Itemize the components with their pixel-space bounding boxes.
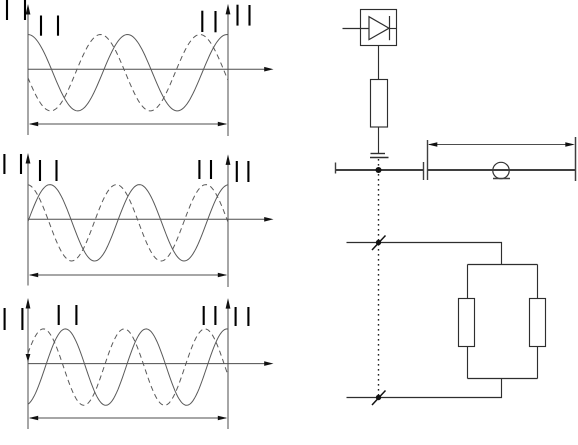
plot 2 label bar 2 [20,154,22,174]
resistor R2 [459,299,475,347]
plot 3 label bar 2 [21,308,23,330]
plot 3 label bar 1 [4,308,6,330]
twist slash on top feeder [372,236,386,251]
plot 3 label bar 6 [214,306,216,325]
wire box to resistor [378,46,380,80]
feeder top wire [347,243,502,265]
series gap right bar / extension line [427,140,429,180]
plot 2 label bar 7 [236,161,238,182]
plot 2 label bar 8 [247,161,249,182]
plot 3 label bar 8 [247,307,249,326]
plot 1 y-axis [26,4,31,135]
plot 2 solid waveform [28,185,228,261]
plot 1 right boundary axis [226,4,231,136]
plot 3 axis down-arrow at origin [26,354,31,362]
lecher line right rail [428,169,576,171]
plot 1 label bar 8 [248,5,250,26]
lecher line right end plate [575,137,577,181]
plot 3 label bar 3 [58,305,60,325]
twist mark dot on bottom feeder [376,395,381,400]
plot 1 wavelength dimension line [29,122,228,127]
capacitor C1 top plate [371,153,386,155]
diode D1 cathode bar [389,16,391,40]
plot 1 solid waveform [28,35,228,111]
plot 2 label bar 3 [39,160,41,181]
dotted probe line [378,159,380,396]
feeder bottom wire [347,379,502,398]
plot 1 label bar 4 [57,16,59,36]
plot 2 label bar 5 [198,160,200,179]
plot 2 x-axis (t) [28,217,274,222]
left branch upper wire [467,265,469,299]
plot 1 dashed waveform [28,35,228,111]
wire resistor to capacitor [378,127,380,154]
plot 2 wavelength dimension line [29,273,228,278]
plot 3 label bar 5 [203,306,205,325]
left branch lower wire [467,347,469,379]
plot 2 label bar 4 [55,160,57,181]
series gap left bar [423,162,425,180]
plot 3 wavelength dimension line [29,416,228,421]
resistor R1 [371,80,388,128]
twist slash on bottom feeder [372,391,386,406]
plot 3 dashed waveform [28,329,228,405]
plot 2 dashed waveform [28,185,228,261]
diode output stub to box edge [389,28,397,30]
load network bottom connect [468,378,538,380]
plot 3 label bar 7 [235,307,237,326]
junction dot node A [376,167,382,173]
rail through detector [493,169,509,171]
plot 1 label bar 1 [6,0,8,20]
capacitor C1 bottom plate [370,157,389,159]
detector box U1 [361,10,397,46]
twist mark dot on top feeder [376,240,381,245]
plot 3 x-axis (t) [28,361,274,366]
plot 1 label bar 3 [40,16,42,36]
distance dimension line [428,142,575,146]
resistor R3 [530,299,546,347]
plot 3 right boundary axis [226,298,231,429]
diode D1 triangle [369,17,389,40]
detector base line [493,178,510,180]
plot 2 label bar 1 [3,154,5,174]
plot 1 label bar 2 [24,0,26,20]
plot 2 label bar 6 [210,160,212,179]
plot 1 label bar 7 [236,5,238,26]
lecher line left end tick [335,163,337,174]
plot 3 y-axis [26,298,31,429]
plot 3 solid waveform [28,329,228,405]
right branch upper wire [537,265,539,299]
lecher line left rail [336,169,424,171]
antenna input wire [343,28,370,30]
plot 1 label bar 5 [201,11,203,32]
plot 1 x-axis (t) [28,67,274,72]
plot 1 label bar 6 [214,11,216,32]
plot 2 y-axis [26,153,31,286]
plot 2 right boundary axis [226,154,231,287]
plot 3 label bar 4 [75,305,77,325]
right branch lower wire [537,347,539,379]
sliding detector G circle [493,162,509,178]
load network top connect [468,264,538,266]
